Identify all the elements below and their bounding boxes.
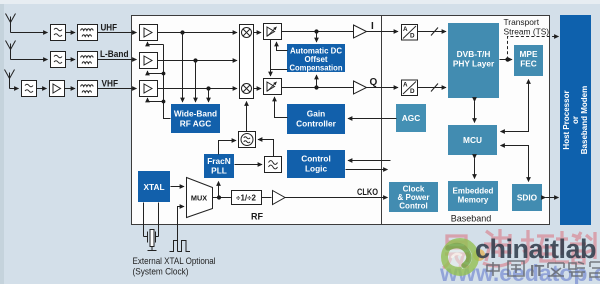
wire PHY to MPE FEC: [500, 59, 513, 61]
wire into control logic from right: [348, 160, 391, 162]
wire Q tap up into offset block: [316, 75, 318, 88]
svg-text:Control: Control: [301, 154, 331, 164]
antenna 2: [6, 41, 48, 60]
wire MUX to divide box: [213, 197, 232, 199]
svg-text:or: or: [571, 116, 580, 124]
svg-text:IT: IT: [530, 263, 544, 280]
MPE FEC block: [514, 45, 543, 76]
svg-text:PLL: PLL: [211, 166, 227, 176]
node Q tap: [314, 85, 318, 89]
wire I tap down into offset block: [316, 32, 318, 43]
wire LNA1 to mixer: [158, 32, 238, 34]
antenna 3: [5, 70, 19, 89]
svg-text:Control: Control: [399, 202, 427, 211]
svg-text:MCU: MCU: [463, 135, 482, 145]
svg-text:Wide-Band: Wide-Band: [174, 109, 217, 119]
Gain Controller block: [287, 104, 345, 134]
svg-text:(System Clock): (System Clock): [133, 267, 189, 277]
bus slash I: [431, 28, 438, 36]
svg-text:RF AGC: RF AGC: [180, 119, 212, 129]
clock buffer triangle: [273, 191, 286, 205]
wire PHY-MCU bidirectional: [474, 102, 476, 123]
red watermark char 1 (易) drawn strokes: [443, 236, 469, 268]
RF / Baseband divider: [381, 16, 383, 225]
svg-text:A: A: [403, 82, 408, 89]
buffer Q triangle: [354, 81, 367, 94]
oscillator VCO box: [239, 132, 256, 148]
svg-text:External XTAL Optional: External XTAL Optional: [133, 256, 216, 266]
wire gain controller to VGA2 bottom: [275, 100, 288, 118]
wire S3 to LNA3: [98, 88, 137, 90]
wire mixer1 to VGA1: [254, 32, 262, 34]
wire AGC to gain controller: [348, 118, 397, 120]
wire Q to ADC: [367, 87, 399, 89]
svg-text:DVB-T/H: DVB-T/H: [457, 49, 491, 59]
SAW filter S3: [78, 81, 98, 97]
loop filter box: [265, 157, 282, 173]
wire loop filter to VCO: [264, 140, 274, 157]
FracN PLL block: [204, 154, 234, 178]
MCU block: [448, 125, 497, 155]
dashed TS wire to host: [508, 37, 557, 60]
wire I to ADC: [367, 31, 399, 33]
svg-text:D: D: [410, 88, 415, 95]
bus slash Q: [431, 84, 438, 92]
red watermark char 4 (培): [555, 231, 586, 263]
amplifier A3: [50, 81, 76, 97]
wire divide box to clk buffer: [262, 197, 272, 199]
LNA1: [140, 25, 158, 41]
wire XTAL down to crystal right: [158, 203, 160, 237]
red watermark char 3 (拓): [521, 230, 554, 263]
wire offset block to VGA1 control: [277, 44, 288, 51]
svg-text:Embedded: Embedded: [453, 187, 494, 196]
svg-text:FEC: FEC: [520, 59, 537, 69]
svg-text:L-Band: L-Band: [100, 49, 129, 60]
VGA2: [264, 79, 282, 95]
green swirl logo: [445, 242, 476, 273]
ADC I box: [402, 25, 418, 41]
MUX trapezoid: [187, 178, 213, 218]
node I tap: [314, 29, 318, 33]
AGC block (baseband): [396, 104, 426, 132]
buffer I triangle: [354, 25, 367, 38]
wire XTAL down to crystal left: [143, 203, 145, 237]
wire out of control logic to right: [346, 169, 388, 171]
red watermark char 5 (训): [585, 232, 600, 259]
svg-text:XTAL: XTAL: [143, 182, 164, 192]
wire branch to LNA1: [148, 44, 164, 46]
wire MCU to SDIO L-shape: [501, 146, 529, 182]
wire SDIO-host bidirectional: [546, 197, 559, 199]
svg-text:Controller: Controller: [296, 119, 336, 129]
wire tap up to FracN: [218, 182, 220, 198]
wire MCU to MPE FEC L-shape: [501, 80, 529, 132]
mixer column box: [240, 25, 254, 99]
wire LNA3 to mixer: [158, 88, 238, 90]
node bus LNA2: [162, 72, 166, 76]
svg-text:D: D: [410, 33, 415, 40]
svg-text:Logic: Logic: [305, 164, 328, 174]
wire ADC-Q to PHY: [418, 87, 447, 89]
Embedded Memory block: [448, 181, 498, 211]
wire S1 to LNA1: [98, 32, 137, 34]
node row2 tap: [193, 58, 197, 62]
wire vertical VGA1-VGA2: [270, 40, 272, 77]
crystal symbol: [144, 230, 159, 251]
svg-text:Compensation: Compensation: [290, 64, 343, 73]
node bus LNA3: [162, 100, 166, 104]
gray chinese subtitle drawn strokes (中国IT实验室): [487, 261, 524, 276]
VGA1: [264, 24, 282, 40]
svg-text:UHF: UHF: [101, 23, 118, 34]
orange ball of logo: [473, 249, 485, 261]
DVB-T/H PHY Layer block: [448, 23, 499, 98]
Clock & Power Control block: [389, 182, 438, 212]
svg-text:PHY Layer: PHY Layer: [453, 59, 495, 69]
SAW filter S1: [78, 25, 98, 41]
LNA2: [140, 53, 158, 69]
wire VGA1 to buffer I: [282, 31, 354, 33]
wire ext clock to MUX: [178, 207, 180, 252]
wire row2 tap down to AGC: [195, 61, 197, 103]
svg-text:AGC: AGC: [402, 113, 420, 123]
svg-text:Gain: Gain: [307, 109, 325, 119]
svg-text:SDIO: SDIO: [517, 193, 538, 203]
node PLL ref tap: [217, 195, 221, 199]
mixer M1: [242, 28, 252, 38]
AGC feedback bus: [148, 42, 171, 119]
Automatic DC Offset Compensation block: [287, 44, 345, 73]
svg-text:Baseband: Baseband: [451, 214, 492, 224]
wire LNA2 to mixer: [158, 60, 238, 62]
svg-text:Q: Q: [370, 77, 378, 88]
wire branch to LNA3: [148, 101, 164, 103]
wire FracN to loop filter: [235, 164, 263, 166]
wire VGA2 to buffer Q: [282, 87, 354, 89]
wire FracN to VCO: [219, 141, 231, 155]
wire bus vertical to AGC left: [164, 45, 171, 119]
svg-text:Memory: Memory: [458, 196, 489, 205]
node row3 tap: [206, 86, 210, 90]
red watermark char 2 (迪): [483, 229, 511, 266]
wire mixer2 to VGA2: [254, 88, 262, 90]
wire ADC-I to PHY: [418, 31, 447, 33]
svg-text:Stream (TS): Stream (TS): [504, 27, 550, 37]
LNA3: [140, 81, 158, 97]
mixer M2: [242, 84, 252, 94]
wire MCU-Memory bidirectional: [474, 159, 476, 179]
WATERMARKS: [439, 229, 600, 286]
svg-text:Host Processor: Host Processor: [562, 90, 571, 149]
svg-text:MUX: MUX: [191, 194, 207, 203]
svg-text:÷1/÷2: ÷1/÷2: [236, 194, 256, 203]
Control Logic block: [287, 150, 345, 178]
antenna 1: [6, 14, 48, 33]
wire XTAL to MUX: [171, 186, 185, 188]
wire row3 tap down to AGC: [208, 89, 210, 103]
filter F2: [51, 52, 76, 68]
svg-text:Transport: Transport: [504, 17, 540, 27]
external clock square wave: [170, 241, 191, 252]
svg-text:Baseband Modem: Baseband Modem: [580, 86, 589, 154]
SDIO block: [512, 184, 542, 211]
wire VCO to mixers LO: [246, 102, 248, 132]
wire branch to LNA2: [148, 73, 164, 75]
Wide-Band RF AGC block: [171, 104, 220, 133]
wire S2 to LNA2: [98, 59, 137, 61]
svg-text:FracN: FracN: [207, 156, 231, 166]
svg-text:CLKO: CLKO: [357, 187, 378, 197]
main RF/Baseband outer box: [132, 16, 550, 225]
wire offset block to mid bus: [271, 69, 288, 71]
svg-text:RF: RF: [251, 212, 263, 222]
svg-text:chinaitlab: chinaitlab: [475, 234, 596, 264]
SAW filter S2: [78, 52, 98, 68]
svg-text:VHF: VHF: [102, 79, 119, 90]
filter F3: [22, 81, 47, 97]
wire row1 tap down to AGC: [182, 33, 184, 103]
filter F1: [51, 25, 76, 41]
wire CLKO to clock power block: [285, 197, 388, 199]
svg-text:I: I: [371, 21, 374, 32]
node row1 tap: [180, 30, 184, 34]
XTAL block: [138, 171, 170, 202]
ADC Q box: [402, 80, 418, 96]
svg-text:A: A: [403, 26, 408, 33]
divide-by box: [232, 191, 262, 205]
node TS tap: [505, 57, 509, 61]
host processor block: [560, 15, 591, 225]
svg-text:MPE: MPE: [520, 49, 538, 59]
